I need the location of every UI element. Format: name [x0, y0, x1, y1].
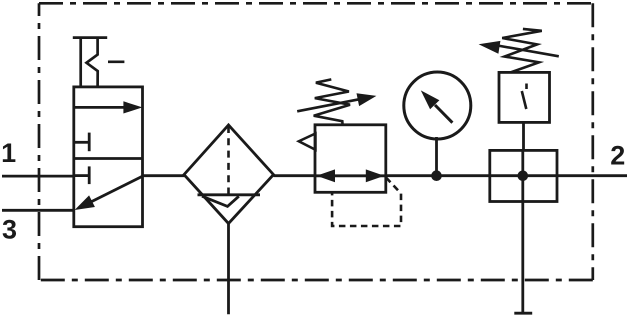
regulator adjustment spring [314, 79, 350, 124]
filter element (dashed centre line) [227, 126, 230, 195]
valve V1 top cell flow arrow (pass-through) [74, 106, 126, 109]
wire: regulator to valve V2 [386, 174, 490, 177]
svg-text:2: 2 [610, 140, 625, 170]
condensate triangle [202, 196, 239, 206]
regulator pilot line (dashed) [332, 178, 401, 227]
valve V2 spring adjustment arrow [498, 46, 559, 57]
valve V2 spring [502, 29, 542, 73]
svg-text:1: 1 [1, 138, 16, 168]
valve V2 body [490, 150, 557, 201]
wire: valve V1 to filter [142, 174, 185, 177]
port 3 wire [2, 209, 75, 212]
filter F1 body (diamond) [184, 125, 274, 224]
regulator flow path with arrowheads [315, 174, 386, 177]
gauge needle [435, 105, 452, 123]
valve V2 internal through line [521, 150, 524, 201]
pressure gauge G1 [404, 72, 471, 139]
valve V1 body (3/2-way on-off valve) [74, 87, 143, 227]
valve V2 pilot box [499, 72, 550, 122]
port 1 wire [2, 175, 75, 178]
junction dot (V2) [518, 171, 529, 182]
regulator relief vent triangle [299, 134, 316, 150]
regulator adjustment arrow [297, 99, 359, 111]
port 2 wire [557, 174, 627, 177]
gauge stem [435, 137, 438, 176]
enclosure border (dash-dot frame) [39, 3, 593, 280]
water separator line [198, 193, 261, 196]
valve V1 top cell blocked port [74, 141, 89, 144]
filter drain line [227, 224, 230, 315]
wire: filter to regulator [274, 174, 316, 177]
valve V2 pilot symbol (gradual opening) [525, 84, 528, 90]
regulator R1 body [315, 125, 386, 193]
valve V2 drain vent bar [514, 312, 532, 315]
valve V1 bottom cell blocked port [74, 174, 89, 177]
valve V2 internal horizontal line [490, 174, 557, 177]
valve V1 position divider [74, 157, 143, 160]
svg-text:3: 3 [2, 215, 17, 245]
junction dot (gauge tap) [431, 170, 442, 181]
valve V1 bottom cell exhaust path with arrow to port 3 [89, 176, 143, 203]
valve V2 drain line [521, 202, 524, 314]
valve V1 manual slide actuator [73, 38, 125, 87]
wire: V2 pilot to body [522, 122, 525, 150]
